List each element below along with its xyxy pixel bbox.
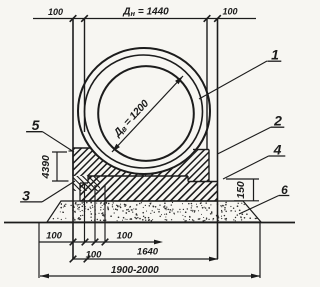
wire: left inner vertical extension line x=84.5 <box>84 19 86 133</box>
callout 4 (plate edge) <box>223 156 269 179</box>
svg-text:100: 100 <box>117 231 134 242</box>
concrete support block item 2 (right saddle) <box>143 146 211 184</box>
wire: extension line x=39 <box>38 222 40 278</box>
dimension row 1900-2000 <box>40 275 260 277</box>
svg-text:6: 6 <box>281 183 288 197</box>
callout 3 (cement joint) <box>42 181 75 202</box>
concrete base plate item 4 <box>78 174 219 203</box>
svg-text:5: 5 <box>32 117 40 133</box>
svg-text:Дн = 1440: Дн = 1440 <box>122 7 169 19</box>
svg-text:1640: 1640 <box>137 247 159 258</box>
pipe inner wall circle (Дв=1200) <box>98 66 194 161</box>
pipe middle circle (insulation) <box>85 55 203 168</box>
sand bedding item 6 <box>47 201 261 222</box>
dimension 150 (plate thickness) <box>226 178 259 180</box>
wire: extension line x=95 <box>94 185 96 242</box>
diameter line Дв=1200 <box>112 76 183 152</box>
svg-text:100: 100 <box>222 7 237 17</box>
dimension row 100 / 1640 <box>73 258 218 260</box>
wire: extension line x=105 <box>104 185 106 242</box>
wire: right inner vertical extension line x=207 <box>206 19 208 151</box>
wire: extension line x=260 <box>259 222 261 278</box>
svg-text:1: 1 <box>271 47 279 63</box>
callout 1 (pipe) <box>199 61 267 99</box>
callout 6 (bedding) <box>239 196 279 215</box>
svg-text:100: 100 <box>86 249 103 260</box>
wire: right outer vertical extension line x=217.5 <box>217 19 219 260</box>
svg-text:1900-2000: 1900-2000 <box>111 265 159 276</box>
wire: left outer vertical extension line x=73 <box>72 19 74 260</box>
svg-text:3: 3 <box>22 187 30 203</box>
callout 2 (right block) <box>218 127 271 154</box>
svg-text:2: 2 <box>273 113 282 129</box>
ground line <box>4 222 295 224</box>
svg-text:100: 100 <box>48 7 63 17</box>
cement joint item 3 (cross hatch) <box>71 174 102 193</box>
dimension 4390 (block height) <box>56 152 58 181</box>
callout 5 (left block) <box>43 132 75 152</box>
dimension line Дн=1440 with side 100 gaps <box>33 18 256 20</box>
concrete support block item 5 (left saddle) <box>70 144 146 178</box>
svg-text:4: 4 <box>273 142 282 158</box>
svg-text:150: 150 <box>235 181 247 199</box>
svg-text:4390: 4390 <box>40 155 52 180</box>
dimension row 100/100 <box>39 241 160 243</box>
pipe outer wall circle (Дн=1440) item 1 <box>78 48 210 174</box>
svg-text:100: 100 <box>46 231 63 242</box>
